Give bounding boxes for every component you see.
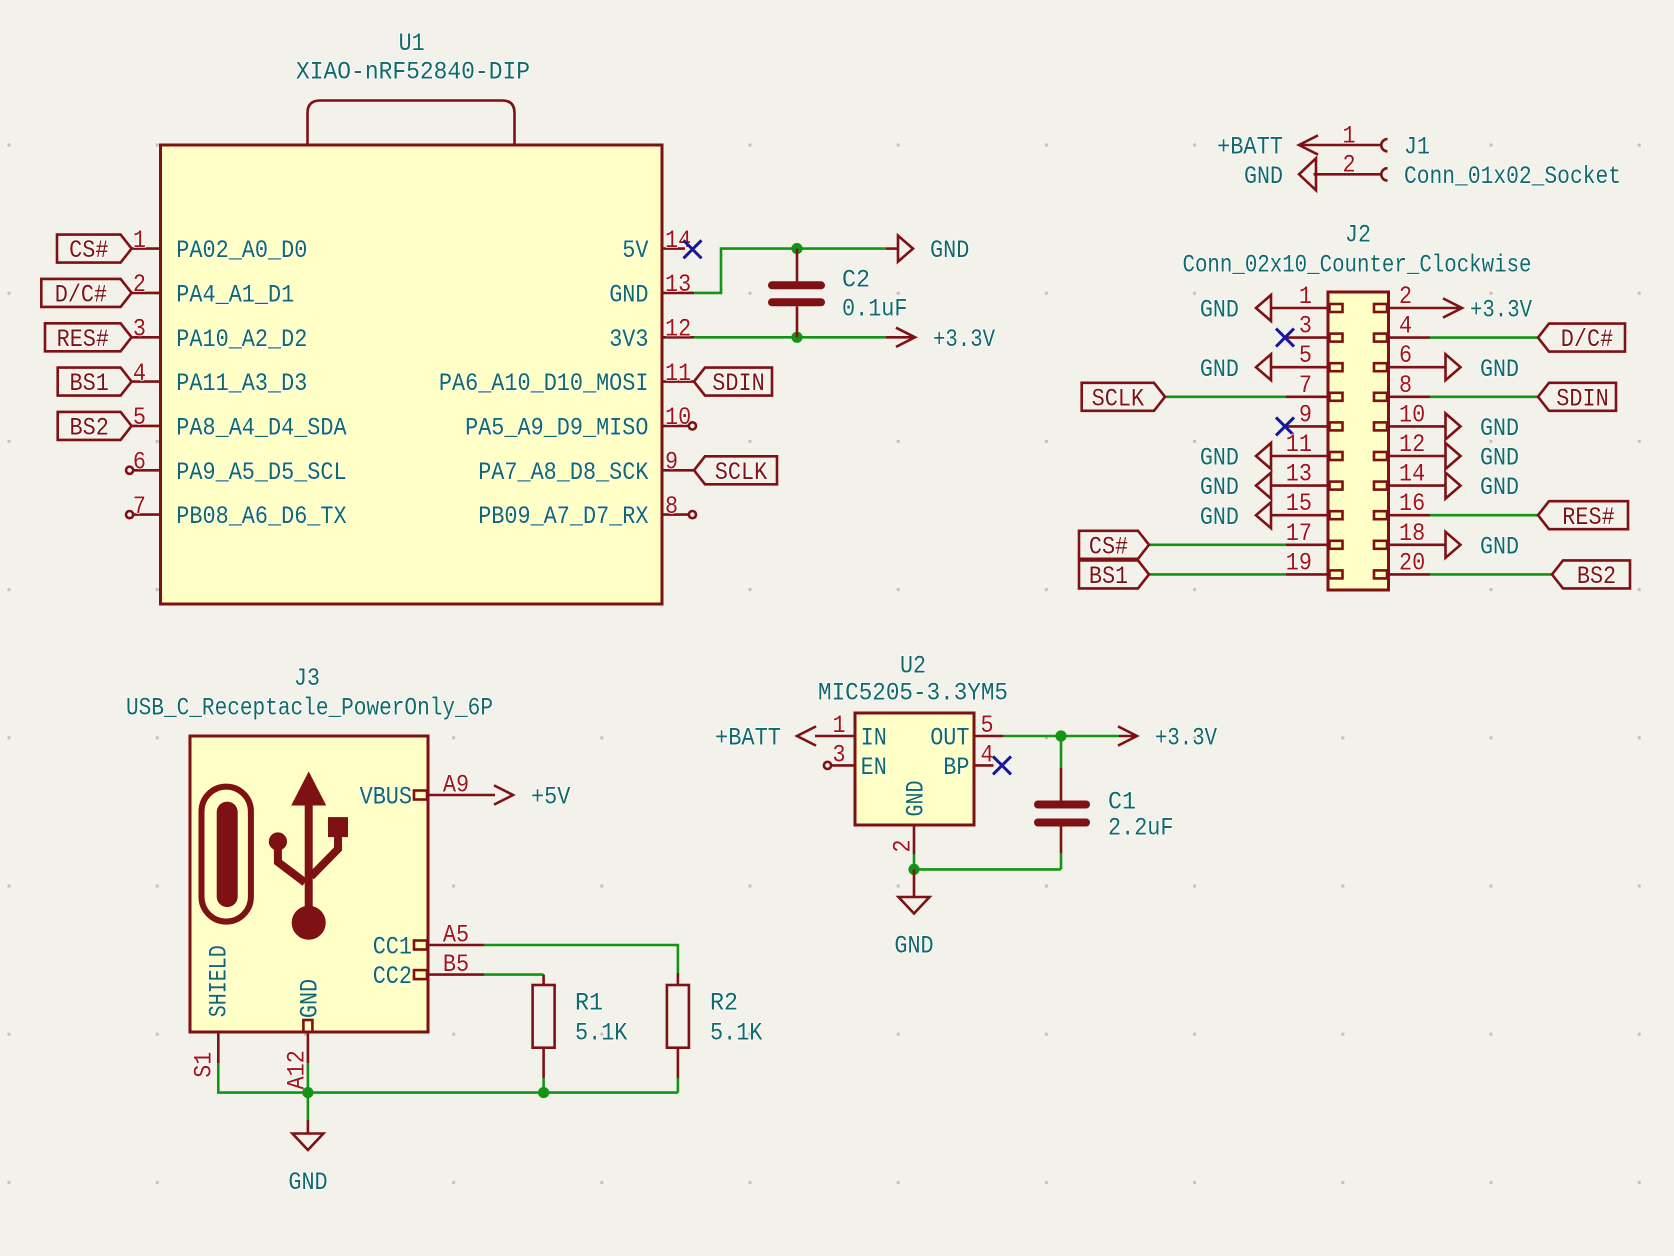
svg-text:MIC5205-3.3YM5: MIC5205-3.3YM5 (818, 679, 1008, 708)
global label RES# at J2 (1538, 501, 1628, 532)
svg-text:5.1K: 5.1K (710, 1019, 762, 1048)
power symbol GND at J2 pin 6 (1446, 354, 1520, 384)
J2 pin 6 (1374, 341, 1446, 371)
svg-text:RES#: RES# (1562, 503, 1614, 532)
wire U1 GND pin to GND symbol (694, 249, 886, 293)
svg-text:+3.3V: +3.3V (1470, 296, 1532, 325)
svg-text:IN: IN (861, 724, 887, 753)
IC U1 XIAO-nRF52840-DIP body (161, 145, 663, 604)
global label D/C# at U1 (41, 279, 131, 310)
svg-text:PA9_A5_D5_SCL: PA9_A5_D5_SCL (176, 458, 346, 487)
svg-text:+3.3V: +3.3V (1155, 724, 1217, 753)
wire GND rail to C1 bottom (914, 868, 1061, 871)
svg-text:18: 18 (1399, 519, 1425, 548)
power symbol +3.3V (right of C2) (886, 325, 995, 354)
wire BS1 to J2 pin 19 (1149, 573, 1286, 576)
svg-text:1: 1 (1342, 122, 1355, 151)
wire J2 pin 16 to RES# (1430, 514, 1538, 517)
svg-text:PA02_A0_D0: PA02_A0_D0 (176, 236, 307, 265)
J2 pin 20 (1374, 548, 1430, 578)
svg-text:1: 1 (832, 711, 845, 740)
svg-text:PB09_A7_D7_RX: PB09_A7_D7_RX (478, 502, 648, 531)
J2 pin 14 (1374, 460, 1446, 490)
svg-text:PA11_A3_D3: PA11_A3_D3 (176, 369, 307, 398)
svg-text:8: 8 (1399, 371, 1412, 400)
svg-text:13: 13 (1286, 460, 1312, 489)
svg-text:7: 7 (133, 492, 146, 521)
junction at C2 bottom (791, 332, 802, 343)
svg-text:9: 9 (665, 448, 678, 477)
USB logo oval (202, 787, 251, 922)
svg-text:+3.3V: +3.3V (933, 325, 995, 354)
power symbol GND at J2 pin 5 (1200, 354, 1271, 384)
junction at R1 bottom (538, 1087, 549, 1098)
svg-text:20: 20 (1399, 548, 1425, 577)
U1 pin 9 PA7_A8_D8_SCK (478, 448, 694, 487)
svg-text:D/C#: D/C# (1561, 325, 1613, 354)
svg-text:GND: GND (1200, 503, 1239, 532)
svg-text:GND: GND (1480, 473, 1519, 502)
U1 pin 3 PA10_A2_D2 (132, 315, 308, 354)
svg-text:5: 5 (980, 711, 993, 740)
svg-text:5: 5 (1299, 341, 1312, 370)
global label BS2 at U1 (58, 412, 132, 443)
U2 pin 2 GND (889, 781, 931, 855)
svg-text:U2: U2 (900, 652, 926, 681)
svg-text:11: 11 (665, 359, 691, 388)
svg-text:CS#: CS# (1089, 532, 1128, 561)
svg-text:J3: J3 (294, 664, 320, 693)
J2 pin 5 (1271, 341, 1343, 371)
svg-text:PA6_A10_D10_MOSI: PA6_A10_D10_MOSI (439, 369, 649, 398)
svg-text:GND: GND (609, 281, 648, 310)
svg-text:5.1K: 5.1K (575, 1019, 627, 1048)
svg-text:6: 6 (1399, 341, 1412, 370)
svg-text:3: 3 (1299, 312, 1312, 341)
svg-text:SDIN: SDIN (712, 369, 764, 398)
svg-text:12: 12 (1399, 430, 1425, 459)
svg-text:17: 17 (1286, 519, 1312, 548)
svg-text:BS1: BS1 (1089, 562, 1128, 591)
svg-text:USB_C_Receptacle_PowerOnly_6P: USB_C_Receptacle_PowerOnly_6P (126, 694, 493, 723)
svg-text:GND: GND (930, 236, 969, 265)
svg-text:PA10_A2_D2: PA10_A2_D2 (176, 325, 307, 354)
no-connect on U2 pin 4 (993, 756, 1011, 774)
no-connect on J2 pin 9 (1276, 417, 1294, 435)
wire CC2 to R1 (484, 973, 544, 976)
svg-text:Conn_01x02_Socket: Conn_01x02_Socket (1404, 162, 1621, 191)
svg-text:10: 10 (1399, 400, 1425, 429)
svg-text:BS2: BS2 (1577, 562, 1616, 591)
power symbol +3.3V at U2 (1118, 724, 1217, 753)
power symbol GND at J2 pin 15 (1200, 502, 1271, 532)
svg-text:4: 4 (133, 359, 146, 388)
U2 pin 3 EN (824, 741, 887, 783)
wire J2 pin 4 to D/C# (1430, 336, 1538, 339)
global label SDIN at J2 (1538, 383, 1616, 414)
J2 pin 10 (1374, 400, 1446, 430)
wire A12 to GND symbol (307, 1063, 310, 1120)
U1 pin 6 PA9_A5_D5_SCL (126, 448, 347, 487)
J2 pin 7 (1286, 371, 1343, 401)
svg-text:+5V: +5V (531, 783, 570, 812)
svg-text:EN: EN (861, 753, 887, 782)
svg-text:3: 3 (133, 315, 146, 344)
capacitor C1 (1038, 736, 1086, 869)
svg-text:PA4_A1_D1: PA4_A1_D1 (176, 281, 294, 310)
resistor R2 (667, 973, 689, 1078)
svg-text:10: 10 (665, 403, 691, 432)
svg-text:SCLK: SCLK (715, 458, 767, 487)
J2 pin 9 (1285, 400, 1343, 430)
J2 pin 16 (1374, 489, 1430, 519)
svg-text:11: 11 (1286, 430, 1312, 459)
J2 pin 8 (1374, 371, 1430, 401)
svg-text:RES#: RES# (57, 325, 109, 354)
svg-text:GND: GND (1480, 414, 1519, 443)
power symbol GND at J2 pin 10 (1446, 413, 1520, 443)
svg-text:6: 6 (133, 448, 146, 477)
svg-text:3V3: 3V3 (609, 325, 648, 354)
svg-text:GND: GND (1200, 355, 1239, 384)
U1 pin 7 PB08_A6_D6_TX (126, 492, 347, 531)
connector J1 pin 1 (1299, 122, 1388, 152)
junction at C2 top (791, 243, 802, 254)
U1 pin 1 PA02_A0_D0 (132, 226, 308, 265)
svg-text:GND: GND (1480, 532, 1519, 561)
J3 pin A9 VBUS (360, 771, 495, 812)
wire SHIELD down to GND rail (218, 1063, 678, 1093)
regulator U2 MIC5205 body (855, 713, 974, 825)
svg-text:4: 4 (1399, 312, 1412, 341)
capacitor C2 (772, 249, 821, 338)
global label CS# at U1 (57, 235, 132, 266)
svg-text:PB08_A6_D6_TX: PB08_A6_D6_TX (176, 502, 346, 531)
wire J2 pin 20 to BS2 (1430, 573, 1552, 576)
global label SDIN at U1 (694, 368, 772, 399)
wire R1 bottom to GND rail (542, 1078, 545, 1093)
junction at U2 GND (908, 864, 919, 875)
J2 pin 17 (1286, 519, 1343, 549)
power symbol GND below U2 (894, 869, 933, 960)
USB logo inner bar (217, 802, 238, 908)
J2 pin 19 (1286, 548, 1343, 578)
U1 pin 4 PA11_A3_D3 (132, 359, 308, 398)
svg-text:0.1uF: 0.1uF (842, 295, 908, 324)
global label D/C# at J2 (1538, 324, 1625, 355)
svg-text:1: 1 (133, 226, 146, 255)
svg-text:16: 16 (1399, 489, 1425, 518)
U1 pin 13 GND (609, 270, 694, 309)
svg-text:GND: GND (894, 932, 933, 961)
U1 pin 10 PA5_A9_D9_MISO (465, 403, 696, 442)
U1 body tab (308, 101, 515, 146)
power symbol GND at J1 (1244, 158, 1316, 191)
wire CC1 to R2 (484, 945, 678, 973)
svg-text:R2: R2 (710, 989, 738, 1018)
svg-text:GND: GND (1244, 162, 1283, 191)
svg-text:1: 1 (1299, 282, 1312, 311)
svg-text:13: 13 (665, 270, 691, 299)
svg-text:19: 19 (1286, 548, 1312, 577)
svg-text:PA8_A4_D4_SDA: PA8_A4_D4_SDA (176, 414, 346, 443)
J2 pin 3 (1285, 312, 1343, 342)
J2 pin 15 (1271, 489, 1343, 519)
U2 pin 5 OUT (930, 711, 1003, 753)
svg-text:GND: GND (1200, 444, 1239, 473)
svg-text:+BATT: +BATT (1217, 133, 1283, 162)
power symbol GND at J2 pin 13 (1200, 473, 1271, 503)
svg-text:GND: GND (296, 979, 325, 1018)
global label RES# at U1 (45, 323, 132, 354)
U1 pin 12 3V3 (609, 315, 694, 354)
global label SCLK at U1 (694, 456, 777, 487)
power symbol GND at J2 pin 1 (1200, 295, 1271, 325)
power symbol GND at J2 pin 11 (1200, 443, 1271, 473)
svg-text:3: 3 (832, 741, 845, 770)
no-connect on U1 pin 14 (684, 240, 702, 258)
svg-text:C1: C1 (1108, 788, 1136, 817)
svg-text:+BATT: +BATT (715, 724, 781, 753)
no-connect on J2 pin 3 (1276, 329, 1294, 347)
svg-text:R1: R1 (575, 989, 603, 1018)
svg-text:CS#: CS# (69, 236, 108, 265)
svg-text:14: 14 (665, 226, 691, 255)
wire OUT to +3.3V (1003, 735, 1119, 738)
U1 pin 5 PA8_A4_D4_SDA (132, 403, 347, 442)
svg-text:BP: BP (943, 753, 969, 782)
J3 pin A12 GND (283, 979, 325, 1090)
U1 pin 14 5V (622, 226, 691, 265)
power symbol GND at J2 pin 12 (1446, 443, 1520, 473)
svg-text:SHIELD: SHIELD (205, 945, 234, 1017)
global label BS2 at J2 (1552, 560, 1630, 591)
junction at C1 top (1055, 730, 1066, 741)
svg-text:GND: GND (1200, 473, 1239, 502)
svg-text:GND: GND (1480, 355, 1519, 384)
wire U1 3V3 pin to +3.3V symbol (694, 336, 886, 339)
global label CS# at J2 (1079, 531, 1149, 562)
connector J1 pin 2 (1314, 151, 1388, 181)
J2 pin 1 (1271, 282, 1343, 312)
J3 pin A5 CC1 (373, 921, 484, 962)
J3 pin S1 SHIELD (190, 945, 234, 1077)
svg-text:2.2uF: 2.2uF (1108, 814, 1174, 843)
svg-text:GND: GND (288, 1168, 327, 1197)
U1 pin 8 PB09_A7_D7_RX (478, 492, 696, 531)
J2 pin 13 (1271, 460, 1343, 490)
svg-text:VBUS: VBUS (360, 783, 412, 812)
svg-text:5: 5 (133, 403, 146, 432)
J3 pin B5 CC2 (373, 950, 484, 991)
svg-text:9: 9 (1299, 400, 1312, 429)
power symbol GND (top right of U1) (886, 236, 969, 266)
svg-text:GND: GND (902, 781, 931, 817)
power symbol GND below J3 (288, 1120, 327, 1197)
junction at J3 GND rail (302, 1087, 313, 1098)
svg-text:12: 12 (665, 315, 691, 344)
svg-text:2: 2 (1342, 151, 1355, 180)
lead to +3.3V arrow at U2 (1119, 735, 1137, 738)
power symbol +3.3V at J2 pin 2 (1443, 296, 1532, 325)
svg-text:B5: B5 (443, 950, 469, 979)
power symbol GND at J2 pin 18 (1446, 532, 1520, 562)
svg-text:PA7_A8_D8_SCK: PA7_A8_D8_SCK (478, 458, 648, 487)
wire U2 GND to rail (913, 854, 916, 869)
svg-text:BS1: BS1 (70, 369, 109, 398)
svg-text:GND: GND (1200, 296, 1239, 325)
wire R2 bottom to GND rail (677, 1078, 680, 1093)
svg-text:15: 15 (1286, 489, 1312, 518)
svg-text:CC2: CC2 (373, 962, 412, 991)
svg-text:J2: J2 (1345, 221, 1371, 250)
J2 pin 11 (1271, 430, 1343, 460)
svg-text:SCLK: SCLK (1092, 384, 1144, 413)
svg-text:7: 7 (1299, 371, 1312, 400)
svg-text:PA5_A9_D9_MISO: PA5_A9_D9_MISO (465, 414, 648, 443)
svg-text:C2: C2 (842, 266, 870, 295)
J2 pin 4 (1374, 312, 1430, 342)
wire CS# to J2 pin 17 (1149, 543, 1286, 546)
svg-text:S1: S1 (190, 1052, 219, 1078)
svg-text:A5: A5 (443, 921, 469, 950)
svg-text:D/C#: D/C# (55, 281, 107, 310)
svg-text:2: 2 (1399, 282, 1412, 311)
svg-text:Conn_02x10_Counter_Clockwise: Conn_02x10_Counter_Clockwise (1183, 251, 1532, 280)
USB logo trident (269, 773, 347, 940)
svg-text:5V: 5V (622, 236, 648, 265)
connector J2 body (1328, 292, 1389, 590)
wire SCLK to J2 pin 7 (1165, 395, 1286, 398)
svg-text:CC1: CC1 (373, 933, 412, 962)
connector J3 USB_C_Receptacle body (190, 736, 428, 1032)
power symbol GND at J2 pin 14 (1446, 473, 1520, 503)
svg-text:J1: J1 (1404, 133, 1430, 162)
svg-text:8: 8 (665, 492, 678, 521)
svg-text:14: 14 (1399, 460, 1425, 489)
global label BS1 at U1 (58, 368, 132, 399)
svg-text:A9: A9 (443, 771, 469, 800)
svg-text:2: 2 (133, 270, 146, 299)
svg-text:BS2: BS2 (70, 414, 109, 443)
wire J2 pin 8 to SDIN (1430, 395, 1538, 398)
U1 pin 11 PA6_A10_D10_MOSI (439, 359, 694, 398)
svg-text:GND: GND (1480, 444, 1519, 473)
resistor R1 (533, 975, 555, 1078)
power symbol +BATT at U2 (715, 724, 816, 753)
svg-text:OUT: OUT (930, 724, 969, 753)
J2 pin 18 (1374, 519, 1446, 549)
svg-text:XIAO-nRF52840-DIP: XIAO-nRF52840-DIP (296, 58, 530, 87)
svg-text:SDIN: SDIN (1556, 384, 1608, 413)
U2 pin 4 BP (943, 741, 993, 783)
U2 pin 1 IN (815, 711, 887, 753)
power symbol +BATT at J1 (1217, 133, 1318, 162)
svg-text:2: 2 (889, 840, 918, 853)
global label BS1 at J2 (1079, 560, 1149, 591)
J2 pin 12 (1374, 430, 1446, 460)
svg-text:U1: U1 (399, 29, 425, 58)
J2 pin 2 (1374, 282, 1462, 312)
svg-text:4: 4 (980, 741, 993, 770)
global label SCLK at J2 (1082, 383, 1165, 414)
power symbol +5V (494, 783, 570, 812)
U1 pin 2 PA4_A1_D1 (132, 270, 295, 309)
